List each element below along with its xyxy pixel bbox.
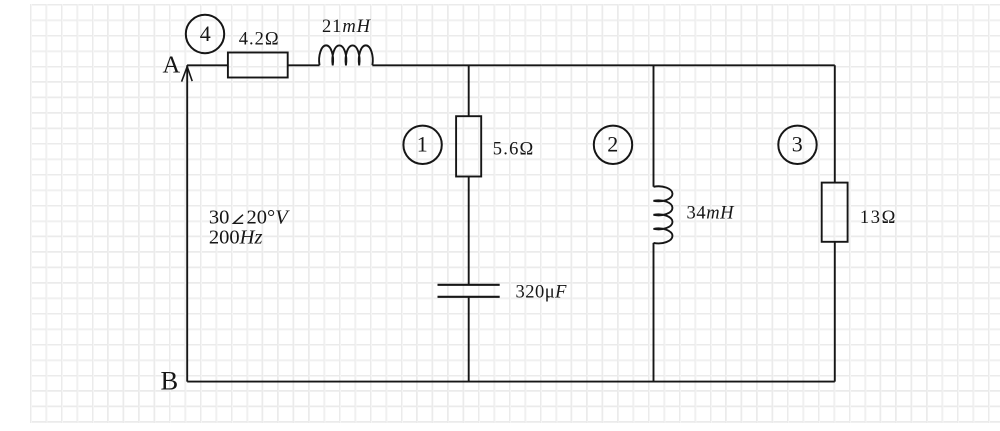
svg-text:320μF: 320μF — [516, 283, 568, 303]
svg-text:21mH: 21mH — [322, 17, 372, 37]
svg-text:5.6Ω: 5.6Ω — [493, 139, 535, 159]
svg-text:4: 4 — [200, 21, 211, 46]
svg-text:3: 3 — [792, 131, 803, 156]
svg-text:2: 2 — [607, 131, 618, 156]
svg-text:4.2Ω: 4.2Ω — [239, 29, 280, 49]
svg-text:1: 1 — [417, 131, 428, 156]
svg-text:A: A — [163, 52, 181, 79]
svg-text:30: 30 — [209, 207, 230, 229]
svg-text:B: B — [161, 366, 179, 396]
svg-text:200Hz: 200Hz — [209, 227, 263, 249]
svg-text:20°V: 20°V — [247, 207, 291, 229]
svg-text:13Ω: 13Ω — [860, 208, 897, 228]
svg-text:34mH: 34mH — [687, 204, 736, 224]
